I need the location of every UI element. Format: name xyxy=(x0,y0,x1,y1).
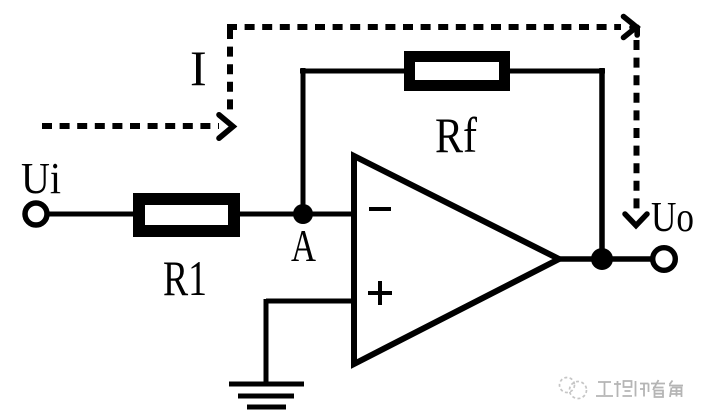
inverting input minus sign xyxy=(369,207,391,211)
arrow head of dashed current path pointing right at node above A xyxy=(219,115,233,138)
ground symbol xyxy=(229,384,304,407)
svg-text:Ui: Ui xyxy=(21,154,61,203)
wire: dashed current path vertical down to output xyxy=(634,40,640,211)
wire: dashed current path segment from input, horizontal xyxy=(42,123,219,129)
wire: op-amp output to Uo terminal xyxy=(556,256,652,262)
arrow head of dashed path pointing down at Uo xyxy=(625,214,647,226)
op-amp U1 triangle xyxy=(354,156,559,364)
resistor R1 xyxy=(139,199,234,231)
input terminal circle Ui xyxy=(25,203,47,225)
svg-text:Rf: Rf xyxy=(435,107,477,163)
wire: feedback top-left horizontal to Rf xyxy=(300,69,406,74)
svg-text:A: A xyxy=(291,220,316,271)
watermark logo icon xyxy=(560,378,587,399)
svg-text:I: I xyxy=(190,40,207,96)
non-inverting input plus sign xyxy=(368,281,392,305)
wire: dashed current path along top xyxy=(227,24,621,30)
watermark text 工程师看海 (drawn strokes) xyxy=(596,380,683,397)
wire: R1 to op-amp inverting input through node A xyxy=(240,212,354,217)
resistor Rf xyxy=(410,57,505,86)
output terminal circle Uo xyxy=(653,248,676,271)
node A junction dot xyxy=(293,204,313,224)
wire: non-inverting input to ground branch xyxy=(266,299,354,304)
arrow head of dashed top path pointing right xyxy=(624,17,638,38)
wire: dashed current path vertical riser xyxy=(227,29,233,117)
wire: Rf to right vertical xyxy=(508,69,605,74)
wire: node A up to feedback branch xyxy=(301,68,306,214)
wire: Ui terminal to R1 xyxy=(47,212,140,217)
wire: vertical down to ground xyxy=(264,299,269,384)
wire: right vertical down to output node xyxy=(599,68,605,259)
output node junction dot xyxy=(591,248,613,270)
svg-text:R1: R1 xyxy=(163,250,207,306)
svg-text:Uo: Uo xyxy=(651,195,694,241)
